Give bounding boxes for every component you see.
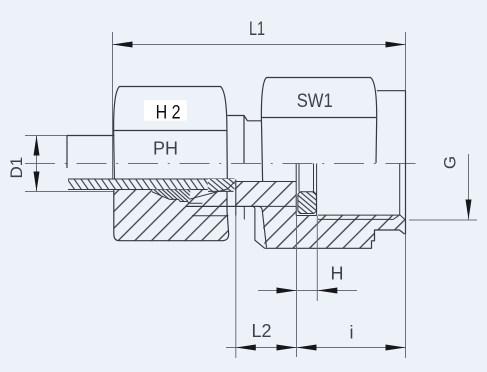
tube wall section	[68, 179, 235, 190]
body neck between nut and hex	[227, 116, 262, 121]
body OD profile	[186, 206, 267, 247]
dimension G	[409, 154, 477, 220]
nut H2 section block	[114, 190, 229, 241]
body washer edge	[243, 116, 245, 164]
tube outline	[67, 136, 114, 169]
seal ring	[298, 192, 317, 214]
port opening chamfer	[393, 215, 405, 220]
svg-text:PH: PH	[153, 139, 178, 159]
thread G major line	[318, 218, 393, 220]
svg-text:G: G	[441, 156, 460, 169]
nut skirt bore line	[186, 205, 296, 207]
centerline	[25, 163, 416, 165]
thread engagement zone (nut/body threads)	[152, 190, 202, 204]
svg-text:L2: L2	[251, 321, 271, 341]
port outline	[377, 91, 406, 234]
dimension D1	[7, 136, 40, 192]
svg-text:H: H	[331, 264, 344, 284]
svg-text:L1: L1	[249, 19, 265, 40]
hex SW1 outline	[261, 78, 376, 182]
extension line D1 top	[25, 135, 115, 137]
dimension H	[258, 216, 357, 358]
extension line L1 left	[112, 32, 114, 179]
svg-text:H 2: H 2	[156, 103, 181, 124]
dimension L1	[113, 19, 406, 48]
body section fill	[235, 181, 405, 248]
label H2	[144, 100, 187, 123]
tube stop edge	[235, 180, 237, 216]
extension line D1 bottom	[25, 191, 115, 193]
extension line L1/i right (port face)	[405, 32, 407, 358]
nut counterbore line	[192, 215, 229, 217]
nut H2 outline	[114, 87, 229, 241]
counterbore face	[399, 164, 401, 215]
svg-text:i: i	[350, 323, 354, 343]
svg-text:SW1: SW1	[297, 91, 333, 112]
thread G minor line	[318, 214, 400, 216]
body bore line	[236, 181, 296, 183]
dimension L2 and i	[226, 216, 406, 358]
svg-text:D1: D1	[7, 157, 26, 179]
cutting ring	[189, 179, 235, 199]
seal recess walls	[296, 164, 316, 216]
